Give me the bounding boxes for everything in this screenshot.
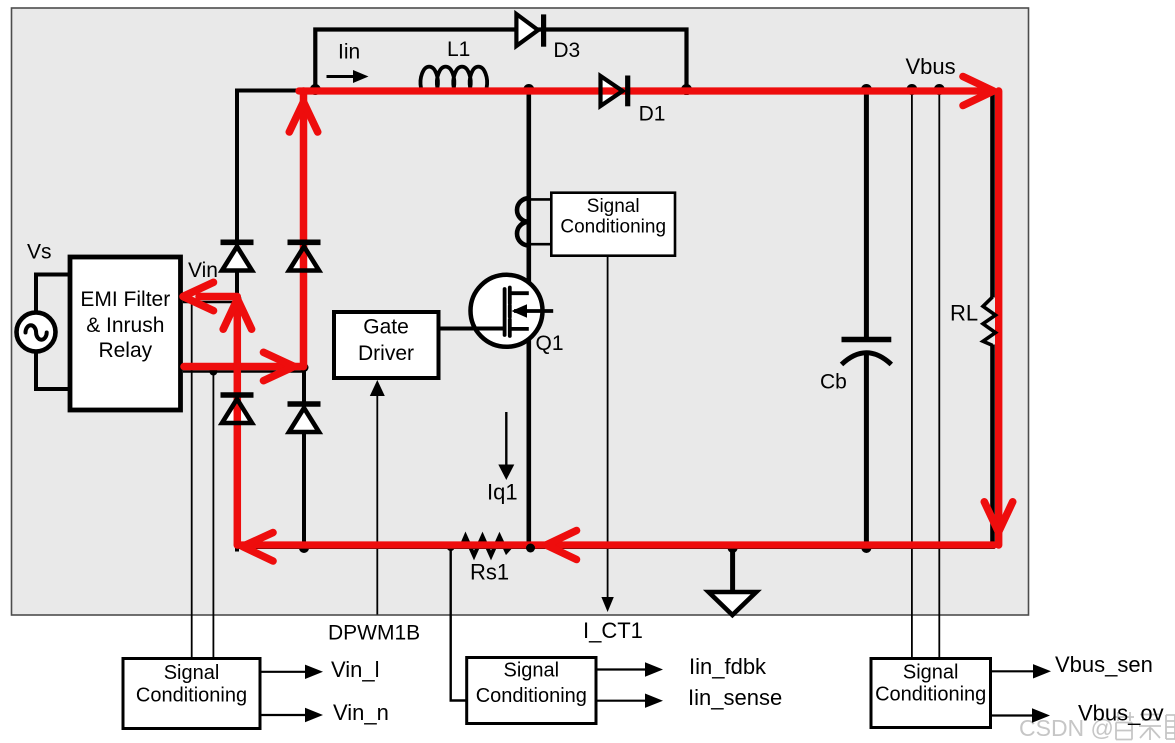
wire bridge left leg — [235, 89, 239, 552]
wire red bridge right up — [300, 91, 308, 367]
svg-text:Vin: Vin — [188, 259, 218, 282]
svg-text:Driver: Driver — [358, 342, 414, 365]
arrow Iin_sense — [596, 694, 663, 708]
arrow Vbus_sen — [991, 664, 1052, 678]
svg-text:DPWM1B: DPWM1B — [328, 621, 420, 644]
diode D1 white fill — [601, 76, 623, 106]
svg-text:Gate: Gate — [363, 316, 409, 339]
svg-text:EMI Filter: EMI Filter — [80, 288, 170, 311]
wire Vin_n sense — [212, 372, 214, 659]
ground — [709, 547, 757, 615]
wire red top rail — [299, 87, 993, 94]
wire Vbus sense 1 — [911, 91, 913, 659]
diode D1 — [601, 76, 628, 107]
arrowhead red up at left leg — [223, 299, 251, 329]
arrow Iin_fdbk — [596, 662, 663, 676]
junction bottom rail Rs1 tap — [447, 543, 455, 551]
svg-text:RL: RL — [950, 300, 978, 325]
junction top rail D3 right — [681, 84, 692, 95]
arrowhead red bottom mid left — [546, 531, 577, 560]
arrow DPWM1B — [370, 380, 385, 396]
junction top rail Cb — [861, 84, 872, 95]
svg-text:Q1: Q1 — [536, 332, 564, 355]
AC source Vs — [17, 313, 56, 352]
wire red right down — [995, 91, 1002, 545]
junction bottom rail ground — [728, 543, 738, 553]
wire RL branch — [990, 91, 995, 298]
signal conditioning box CT — [551, 193, 675, 256]
svg-text:Vbus_sen: Vbus_sen — [1055, 652, 1153, 677]
wire bottom rail — [237, 545, 993, 549]
schematic panel — [12, 8, 1029, 615]
svg-text:Conditioning: Conditioning — [560, 217, 666, 238]
wire Vin (EMI to bridge) — [183, 301, 237, 304]
svg-text:Iq1: Iq1 — [487, 480, 518, 505]
arrowhead red bottom end left — [243, 533, 274, 561]
svg-text:I_CT1: I_CT1 — [583, 618, 643, 643]
svg-text:Iin: Iin — [338, 40, 360, 63]
junction AC2 node — [300, 363, 309, 372]
junction bottom rail drain — [526, 544, 535, 553]
junction Vin node — [233, 295, 242, 304]
svg-text:Conditioning: Conditioning — [136, 685, 247, 707]
svg-text:Vin_n: Vin_n — [333, 700, 389, 725]
svg-text:Conditioning: Conditioning — [476, 685, 587, 707]
wire Cb branch bottom — [864, 351, 869, 549]
svg-text:& Inrush: & Inrush — [86, 314, 164, 337]
arrowhead red Vbus right — [963, 77, 994, 106]
wire red bottom rail — [237, 541, 994, 548]
wire red bridge left up — [234, 303, 242, 545]
wire Vbus sense 2 — [938, 91, 940, 659]
resistor Rs1 — [461, 537, 511, 556]
arrowhead red AC2 right — [264, 352, 295, 380]
signal conditioning box Vbus — [871, 659, 991, 728]
svg-text:Vs: Vs — [27, 241, 52, 264]
capacitor Cb — [842, 340, 892, 365]
resistor RL — [983, 297, 996, 345]
wire Q1 drain — [526, 89, 531, 294]
wire Vin_l sense — [191, 302, 193, 659]
inductor L1 — [421, 67, 488, 88]
wire DPWM1B — [376, 394, 378, 615]
junction top rail D3 left — [310, 84, 321, 95]
svg-text:Iin_sense: Iin_sense — [688, 685, 782, 710]
junction bottom rail right leg — [299, 543, 309, 553]
arrowhead red Vin left — [183, 282, 214, 310]
wire Vs top — [36, 275, 69, 316]
svg-text:Relay: Relay — [98, 339, 152, 362]
current transformer CT1 — [517, 198, 551, 245]
junction top rail sense2 — [934, 84, 945, 95]
svg-text:Cb: Cb — [820, 370, 847, 393]
diode bridge lower-left outline — [221, 395, 254, 423]
wire gate — [440, 327, 506, 331]
diode D3 — [516, 14, 543, 47]
wire Vs bottom — [36, 350, 69, 389]
svg-text:Signal: Signal — [587, 196, 640, 217]
MOSFET Q1 — [471, 275, 554, 347]
wire Iin_sense tap — [451, 547, 467, 701]
svg-text:Vin_l: Vin_l — [331, 657, 380, 682]
svg-text:D1: D1 — [639, 102, 666, 125]
arrow I_CT1 — [601, 597, 613, 612]
signal conditioning box Vin — [123, 659, 260, 729]
arrowhead red up at right leg — [289, 102, 317, 132]
wire top rail — [237, 89, 993, 93]
svg-text:D3: D3 — [553, 39, 580, 62]
svg-text:Conditioning: Conditioning — [875, 684, 986, 706]
wire D3 bypass — [315, 30, 686, 96]
svg-text:Vbus_ov: Vbus_ov — [1078, 701, 1164, 726]
arrow Vbus_ov — [991, 708, 1051, 722]
Gate Driver box — [334, 312, 439, 378]
wire red Vin — [199, 293, 237, 301]
signal conditioning box Iin — [467, 658, 596, 724]
wire red AC2 — [184, 363, 304, 371]
diode bridge upper-right outline — [288, 242, 321, 270]
arrow Vin_l — [260, 665, 323, 679]
diode bridge upper-left — [221, 242, 254, 270]
wire bridge right leg — [302, 89, 306, 551]
diode bridge lower-left white fill — [222, 399, 252, 423]
junction top rail drain — [523, 84, 534, 95]
arrow Iin — [327, 70, 369, 83]
arrowhead red down right side — [984, 502, 1012, 532]
wire I_CT1 sense — [607, 256, 609, 599]
diode bridge upper-right white fill — [289, 247, 319, 271]
svg-text:Signal: Signal — [503, 660, 559, 682]
wire AC neutral (EMI to bridge) — [183, 370, 304, 373]
junction bottom rail Cb — [861, 543, 871, 553]
EMI Filter box — [70, 257, 181, 410]
junction top rail sense1 — [906, 84, 917, 95]
wire Cb branch top — [864, 91, 869, 338]
svg-text:Signal: Signal — [164, 662, 220, 684]
svg-text:L1: L1 — [447, 38, 470, 61]
wire Q1 source — [526, 329, 531, 549]
diode bridge lower-right — [288, 404, 321, 432]
svg-text:Rs1: Rs1 — [470, 560, 509, 585]
junction Vin_n tap — [209, 368, 217, 376]
svg-text:Iin_fdbk: Iin_fdbk — [689, 654, 767, 679]
watermark CSDN — [1019, 710, 1175, 741]
svg-text:Vbus: Vbus — [906, 54, 956, 79]
arrow Vin_n — [260, 708, 323, 722]
arrow Iq1 — [498, 412, 514, 480]
svg-text:Signal: Signal — [903, 662, 959, 684]
